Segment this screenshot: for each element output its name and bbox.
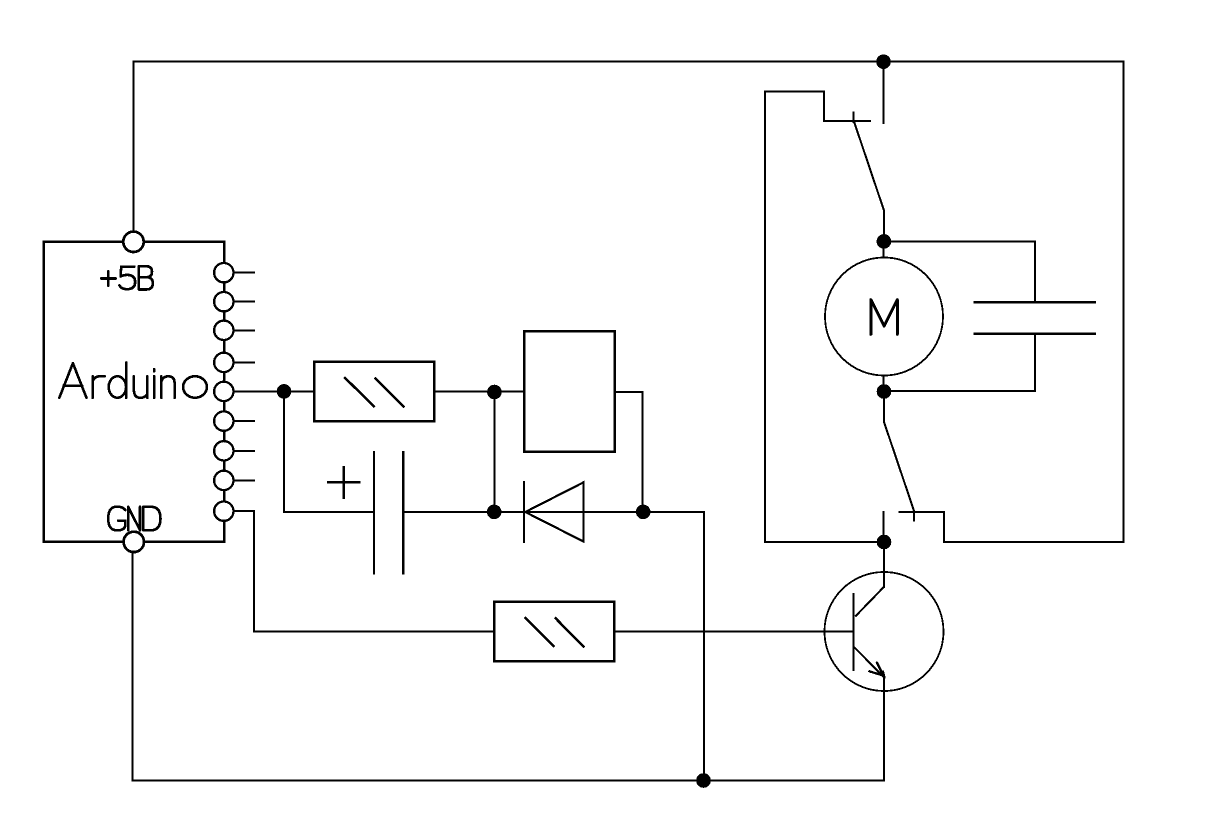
Arduino U1 body [44,242,224,542]
terminal circle +5B [123,232,143,252]
pin circle 5 [214,382,233,401]
pin circle 8 [214,471,233,490]
wire relay coil K1 right side down [615,392,643,512]
capacitor C2 top plate [975,301,1096,303]
junction motor top node [877,234,892,249]
capacitor C1 left plate [373,452,375,573]
wire node A down to capacitor C1 [284,391,374,512]
capacitor C2 bottom plate [975,332,1096,334]
pin circle 6 [214,411,233,430]
junction node C [487,505,502,520]
switch S1 blade [854,122,884,242]
pin stub 1 [234,272,255,274]
label GND [108,507,160,531]
relay coil K1 body [524,331,614,451]
switch S1 tick [853,113,855,123]
pin stub 2 [234,301,255,303]
transistor Q1 collector diagonal [856,587,884,616]
resistor R2 slashes [525,617,585,647]
junction motor bottom node [877,384,892,399]
wire resistor R1 to relay coil K1 [434,391,524,393]
pin circle 7 [214,441,233,460]
resistor R1 body [314,362,434,422]
wire GND terminal down [132,548,134,781]
pin stub 7 [234,450,255,452]
wire motor top node to snubber capacitor [884,241,1035,302]
label M [871,300,897,335]
pin stub 6 [234,420,255,422]
wire motor top lead [883,241,885,257]
wire collector lead [883,542,885,587]
junction ground rail node [696,773,711,788]
resistor R2 body [494,602,614,662]
transistor Q1 emitter arrowhead [869,663,884,678]
pin circle 9 [214,502,233,521]
pin circle 3 [214,321,233,340]
capacitor C1 right plate [402,452,404,573]
resistor R1 slashes [344,377,404,407]
wire relay frame left vertical [764,92,766,542]
switch S2 common lead [883,392,885,422]
motor M1 body [825,258,943,376]
wire relay frame bottom bracket [900,512,1124,542]
switch S2 fixed contact [883,512,885,534]
diode D1 triangle [525,482,583,541]
transistor Q1 emitter diagonal [855,648,885,678]
wire node B down to diode row [493,392,495,512]
pin circle 2 [214,292,233,311]
pin stub 4 [234,361,255,363]
wire right outer vertical [1123,62,1125,542]
junction collector node [877,535,892,550]
label Arduino [59,363,207,398]
switch S2 blade [884,422,915,512]
wire motor bottom lead [883,376,885,392]
wire relay frame bottom to collector node [765,541,884,543]
pin circle 1 [214,263,233,282]
capacitor C1 plus sign [328,467,359,498]
wire relay frame top bracket [765,92,870,122]
junction node B [487,385,502,400]
wire resistor R2 to transistor base [614,630,853,632]
wire +5B terminal to top rail [133,62,135,235]
label +5B [101,266,153,289]
wire pin D5 to resistor R1 [234,390,315,392]
pin stub 3 [234,329,255,331]
terminal circle GND [124,532,144,552]
junction node D [636,505,651,520]
pin stub 8 [234,479,255,481]
pin circle 4 [214,353,233,372]
wire capacitor C1 to diode D1 row [403,512,704,781]
wire bottom ground rail [133,780,884,782]
wire top rail to switch S1 fixed contact [883,62,885,123]
switch S2 tick [913,512,915,521]
junction top rail node [876,54,891,69]
wire pin GND-pin to resistor R2 [233,511,494,631]
transistor Q1 body [825,572,944,691]
wire capacitor C2 to motor bottom node [884,334,1035,391]
junction node A [277,384,292,399]
wire emitter lead down [883,678,885,781]
wire top +5V rail [134,61,1124,63]
diode D1 cathode bar [523,482,525,541]
transistor Q1 base bar [852,594,854,670]
